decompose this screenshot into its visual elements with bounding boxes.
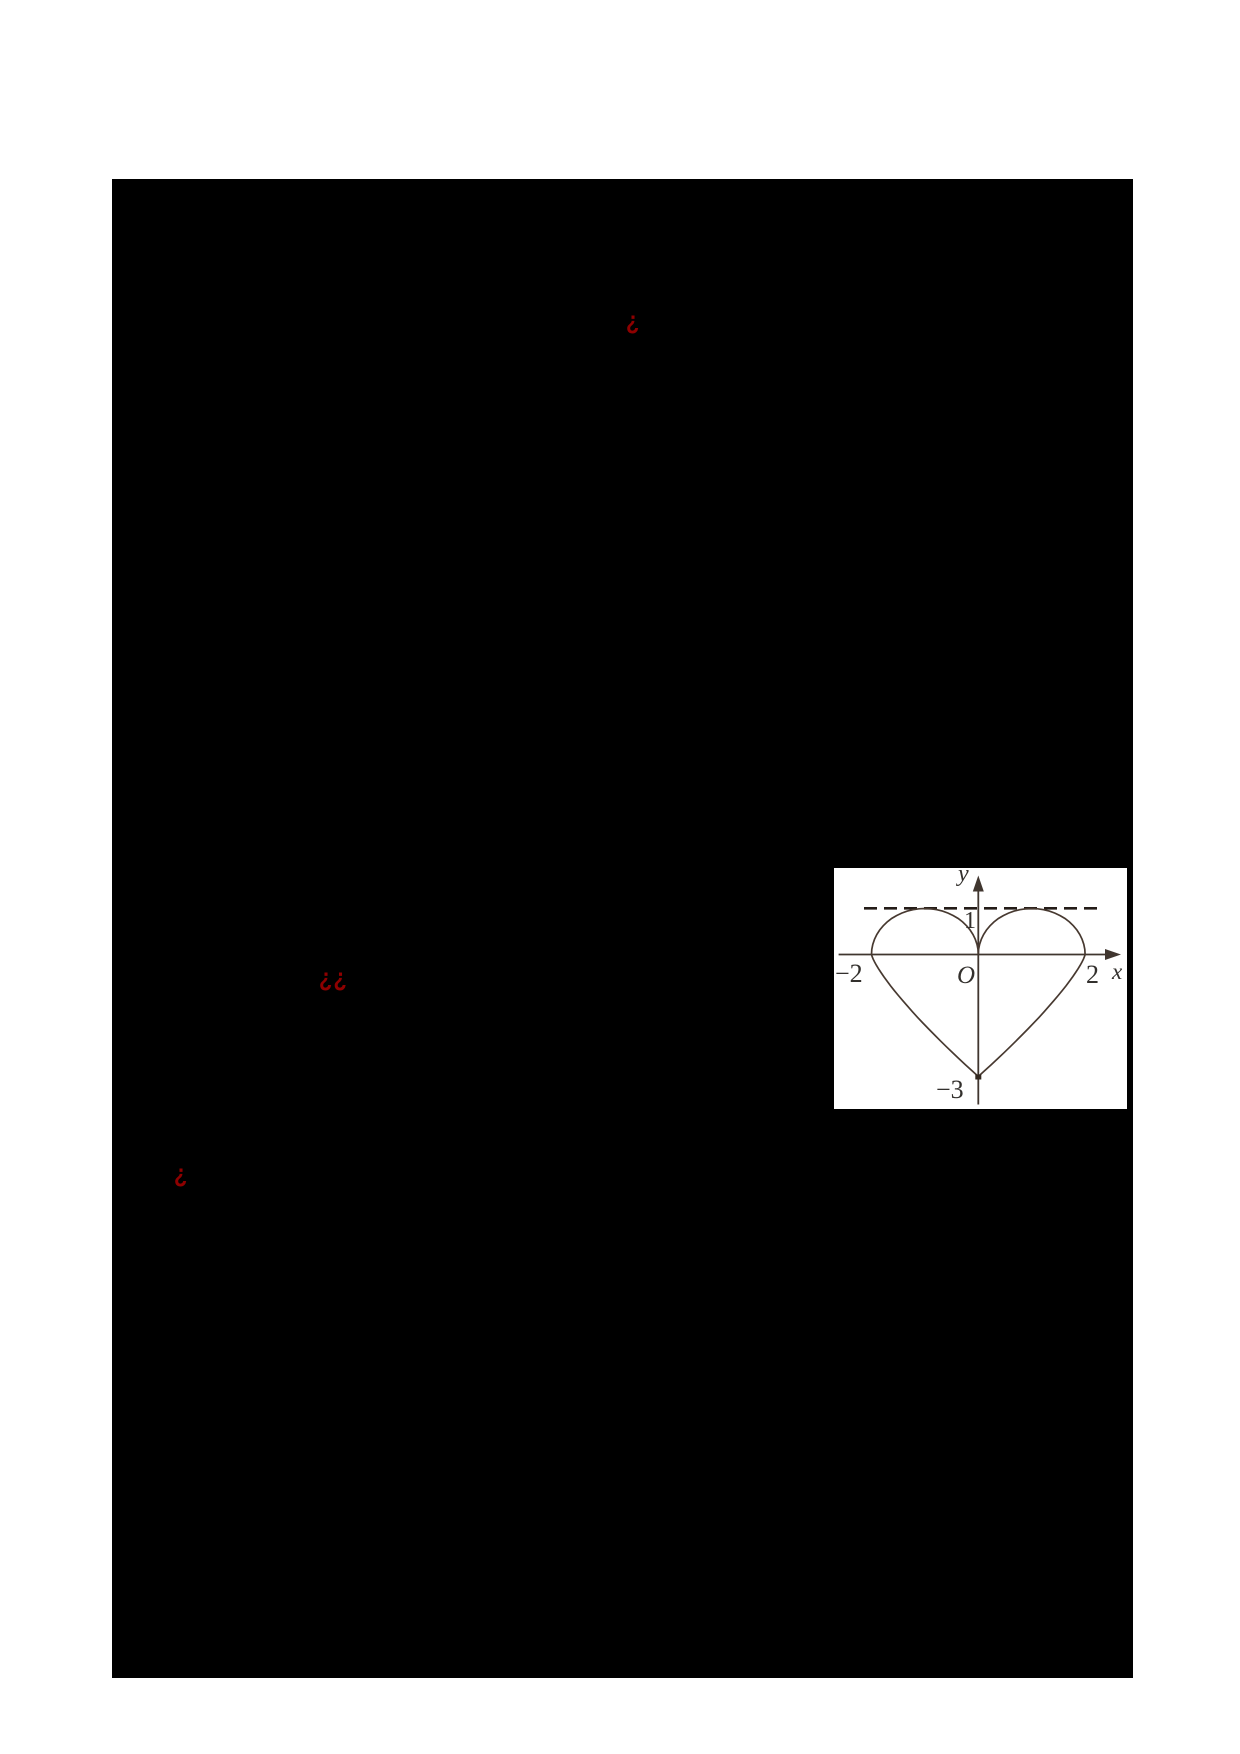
svg-text:x: x	[1111, 959, 1123, 984]
svg-text:−2: −2	[835, 959, 863, 988]
svg-text:1: 1	[964, 908, 976, 934]
svg-text:O: O	[957, 962, 975, 989]
svg-text:−3: −3	[936, 1075, 964, 1104]
svg-text:2: 2	[1086, 960, 1099, 989]
svg-text:y: y	[956, 868, 969, 887]
